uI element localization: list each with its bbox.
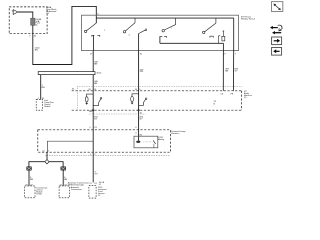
TCM dashed box — [25, 186, 35, 198]
harness boundary dotted vertical — [76, 87, 78, 111]
icon resize button — [272, 2, 283, 12]
splice pack bar S340 — [38, 72, 95, 75]
switch 1 contact circle — [84, 30, 86, 32]
svg-text:GY: GY — [139, 119, 143, 121]
switch 4 bus stub — [215, 18, 217, 23]
wire fuse output U-route to switch feed pin — [33, 6, 97, 64]
svg-text:BN: BN — [64, 179, 67, 181]
switch circlet group2 — [145, 98, 147, 100]
svg-text:DG: DG — [140, 71, 144, 73]
relay dotted link — [143, 141, 151, 143]
svg-text:GY: GY — [234, 71, 238, 73]
switch 1 lever — [87, 23, 97, 31]
wire to splice diamond — [46, 152, 48, 160]
wire right to module — [62, 170, 64, 186]
svg-text:BN: BN — [35, 49, 38, 51]
wire from B+ to fuse — [18, 12, 33, 18]
lamp plate electrode — [219, 36, 221, 44]
icon swap arrows — [270, 25, 282, 34]
relay pin tick right — [158, 138, 160, 140]
wire diamond right branch — [49, 162, 63, 167]
harness boundary dotted A — [77, 86, 242, 88]
svg-text:Transmission: Transmission — [71, 188, 82, 191]
switch 2 bus stub — [134, 18, 136, 23]
window switch module box S79 — [81, 15, 238, 50]
twisted splice block right — [61, 167, 66, 171]
switch branch group2 — [139, 100, 146, 106]
fuse oval symbol group1 tee — [87, 94, 94, 97]
engine dashed box — [38, 130, 171, 152]
fuse F6UA — [31, 18, 35, 25]
relay contact stub — [153, 144, 155, 148]
switch circlet group1 — [100, 97, 102, 99]
icon prev arrow button — [272, 48, 282, 56]
harness boundary dashed vertical right — [241, 91, 243, 110]
wire splice pack left drop — [40, 75, 42, 100]
svg-text:BN: BN — [225, 71, 228, 73]
relay box — [134, 136, 158, 148]
switch 2 contact circle — [123, 31, 125, 33]
switch 4 lever — [205, 23, 216, 32]
wire continues group1 — [92, 94, 94, 141]
switch 4 throw contacts — [210, 36, 213, 37]
wire switch2 output down to relay — [138, 51, 140, 141]
arrow terminal group2 — [131, 102, 133, 103]
small module dashed box — [36, 99, 42, 110]
svg-text:BN: BN — [94, 64, 97, 66]
lamp resistor element — [222, 36, 225, 41]
svg-text:Harness: Harness — [171, 132, 180, 135]
svg-text:GY: GY — [95, 173, 99, 175]
battery positive triangle B+ — [12, 10, 18, 15]
lamp top lead — [222, 32, 224, 36]
switch 3 wire to lamp bus — [159, 36, 161, 43]
harness boundary lower dotted — [89, 113, 146, 115]
arrow terminal group1 — [86, 102, 88, 103]
svg-text:4010: 4010 — [96, 73, 102, 75]
switch 1 throw contacts — [92, 35, 95, 37]
switch 4 contact circle — [203, 31, 205, 33]
fuse oval group1 — [85, 97, 88, 102]
bus right drop wire pin — [232, 18, 234, 91]
lower boundary dotted B — [46, 154, 171, 156]
svg-text:BN: BN — [42, 87, 45, 89]
fuse block X50A dashed box — [9, 7, 47, 34]
svg-text:BN: BN — [30, 179, 33, 181]
inline connector dashed box — [89, 186, 96, 198]
right module dashed box — [59, 186, 69, 198]
switch 1 output wire pin — [92, 35, 94, 50]
wire diamond left branch — [29, 162, 45, 167]
switch 2 lever — [126, 23, 136, 31]
fuse oval symbol group2 tee — [132, 94, 139, 97]
switch 3 throw contacts — [160, 35, 163, 37]
svg-text:(W/Shift Solenoid): (W/Shift Solenoid) — [68, 184, 84, 187]
switch 3 bus stub — [175, 18, 177, 25]
internal feed bus — [96, 17, 233, 19]
switch 3 contact circle — [162, 30, 164, 32]
svg-text:BN: BN — [94, 83, 97, 85]
harness boundary lower dashed — [72, 109, 242, 111]
svg-text:c: c — [171, 27, 172, 29]
junction pad group1 — [92, 109, 94, 111]
switch 2b lever — [139, 30, 145, 33]
svg-text:(TCM): (TCM) — [36, 193, 42, 195]
inner solid box — [47, 141, 93, 152]
wire switch1 output down — [92, 51, 94, 95]
svg-text:Module: Module — [44, 106, 50, 108]
relay contact — [153, 140, 155, 144]
svg-text:GY: GY — [94, 119, 98, 121]
switch branch group1 — [93, 99, 100, 106]
svg-text:Relay: Relay — [158, 139, 164, 141]
twisted splice block left — [27, 167, 32, 171]
switch 2 output wire pin — [138, 34, 140, 51]
icon next arrow button — [272, 37, 282, 45]
svg-text:X2: X2 — [98, 195, 100, 197]
lamp terminal dot — [223, 31, 224, 32]
switch 3 lever — [164, 25, 175, 30]
junction pad group2 — [138, 109, 140, 111]
fuse oval group2 — [131, 97, 134, 102]
relay coil — [136, 141, 140, 143]
switch 2b contact circle — [145, 29, 147, 31]
svg-text:Window Switch: Window Switch — [241, 17, 256, 20]
center bottom wire — [92, 141, 94, 182]
wire left to TCM — [28, 170, 30, 186]
harness boundary dashed A — [72, 90, 242, 92]
illumination lamp bus — [160, 42, 224, 44]
splice diamond S110 — [45, 160, 49, 164]
lamp ground pin wire — [222, 43, 224, 91]
